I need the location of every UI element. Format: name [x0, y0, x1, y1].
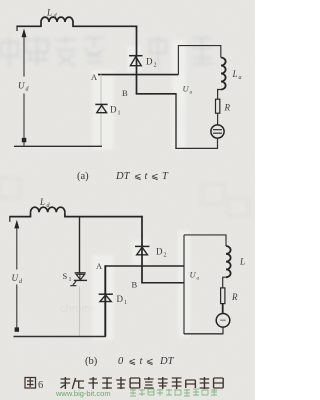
- faint print-through watermark row 2: [0, 178, 248, 216]
- svg-text:6: 6: [38, 380, 43, 391]
- wire coil to R (b): [223, 277, 226, 288]
- white halo patches: [92, 40, 190, 340]
- figure caption 图6: [25, 378, 36, 389]
- svg-text:DT: DT: [159, 356, 175, 367]
- wire R to motor (a): [217, 113, 219, 125]
- svg-text:L: L: [39, 197, 45, 207]
- svg-text:0: 0: [118, 356, 124, 367]
- source arrow Ud (b): [16, 228, 18, 329]
- svg-text:U: U: [183, 84, 190, 94]
- svg-text:2: 2: [164, 253, 167, 259]
- svg-text:1: 1: [69, 277, 72, 283]
- wire coil to R (a): [218, 90, 221, 100]
- svg-text:U: U: [12, 273, 19, 283]
- svg-text:L: L: [46, 8, 52, 18]
- svg-text:⩽: ⩽: [129, 356, 137, 366]
- inductor Ld (b): [31, 207, 65, 212]
- wire R to motor (b): [222, 304, 224, 314]
- svg-text:U: U: [18, 81, 25, 91]
- svg-text:www.big-bit.com: www.big-bit.com: [55, 389, 111, 398]
- inductor La (a): [221, 58, 226, 90]
- wire D2 vertical (b): [141, 216, 143, 284]
- svg-text:B: B: [122, 88, 128, 98]
- wire S1 branch lower faint (b): [79, 287, 81, 337]
- paper grain: [0, 0, 255, 400]
- diode D1 (b): [99, 294, 113, 301]
- svg-text:a: a: [190, 90, 193, 96]
- svg-text:L: L: [232, 69, 238, 79]
- svg-text:B: B: [132, 280, 138, 290]
- svg-text:A: A: [96, 261, 103, 271]
- wire load loop top (b): [184, 235, 226, 246]
- resistor R (a): [216, 99, 220, 113]
- wire load loop left vertical (b): [183, 235, 185, 334]
- inductor Ld (a): [41, 17, 73, 22]
- motor M (a): [211, 125, 224, 138]
- svg-text:a: a: [197, 276, 200, 282]
- svg-text:(b): (b): [85, 356, 98, 367]
- wire top (b) left segment: [9, 212, 30, 216]
- svg-text:D: D: [117, 294, 124, 304]
- svg-text:U: U: [190, 270, 197, 280]
- svg-text:chrome: chrome: [60, 303, 97, 315]
- wire node B horizontal (a): [136, 93, 177, 95]
- figure caption text strokes: [61, 377, 224, 389]
- svg-text:D: D: [146, 57, 153, 67]
- resistor R (b): [221, 288, 225, 304]
- svg-text:R: R: [231, 292, 238, 302]
- svg-text:A: A: [91, 72, 98, 82]
- wire D2 vertical (a): [136, 26, 138, 95]
- source arrow Ud (a): [23, 37, 25, 147]
- node stub top-left (a): [16, 26, 18, 31]
- wire node A horizontal (a): [98, 74, 178, 76]
- svg-text:a: a: [239, 75, 242, 81]
- svg-text:1: 1: [118, 111, 121, 117]
- svg-text:D: D: [110, 105, 117, 115]
- svg-text:1: 1: [124, 300, 127, 306]
- node stub top-left (b): [9, 217, 11, 222]
- faint print-through watermark row 1: [1, 36, 214, 68]
- wire bottom left (b): [14, 336, 107, 338]
- background paper: [0, 0, 255, 400]
- wire bottom right (b): [184, 333, 224, 335]
- svg-text:S: S: [63, 271, 68, 281]
- svg-text:⩽: ⩽: [151, 171, 159, 181]
- wire lower right vertical (a): [175, 94, 177, 149]
- diode D1 (a): [95, 104, 107, 112]
- svg-text:L: L: [239, 257, 245, 267]
- wire node B horizontal (b): [142, 282, 184, 284]
- wire bottom right (a): [175, 147, 218, 149]
- thyristor S1 (b): [70, 273, 87, 286]
- wire top (b) right segment: [65, 212, 143, 216]
- wire motor to bottom (a): [217, 138, 219, 149]
- svg-text:⩽: ⩽: [146, 356, 154, 366]
- wire bottom left (a): [14, 145, 102, 147]
- motor M (b): [216, 314, 230, 328]
- diode D2 (b): [135, 246, 149, 254]
- svg-text:⩽: ⩽: [134, 171, 142, 181]
- wire top (a) left segment: [16, 22, 41, 26]
- svg-text:2: 2: [154, 63, 157, 69]
- wire node A horizontal (b): [105, 265, 184, 267]
- svg-text:DT: DT: [115, 171, 131, 182]
- diode D2 (a): [129, 56, 143, 66]
- svg-text:D: D: [156, 247, 163, 257]
- wire motor to bottom (b): [222, 327, 224, 334]
- wire top (a) right segment: [73, 22, 137, 26]
- wire D1 branch faint (a): [100, 75, 102, 147]
- wire load loop top (a): [178, 46, 220, 75]
- wire D1 branch (b): [104, 265, 106, 336]
- svg-text:R: R: [224, 103, 231, 113]
- svg-text:(a): (a): [77, 171, 89, 182]
- inductor L (b): [226, 246, 231, 277]
- wire S1 branch upper (b): [79, 217, 81, 273]
